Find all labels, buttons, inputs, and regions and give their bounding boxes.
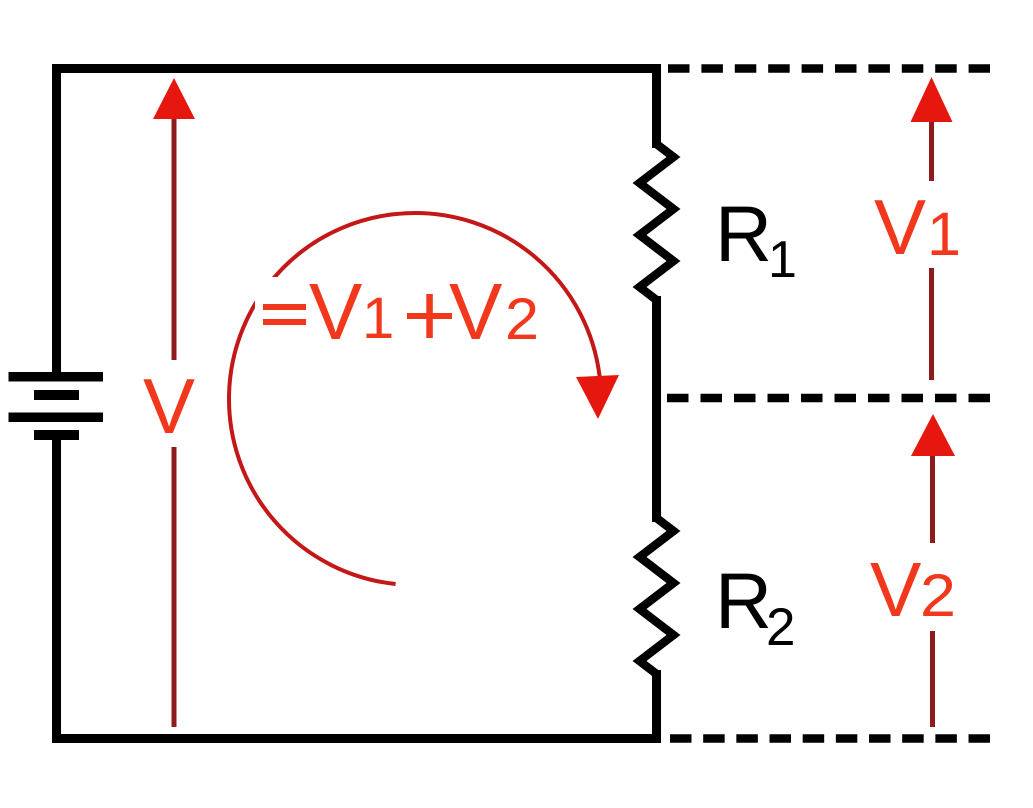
resistor R1 (zigzag) [640,144,674,300]
arrow V2 shaft [930,455,935,727]
dashed node line bottom (node at bottom of R2) [670,734,990,743]
arrow V1 head [911,77,953,122]
loop equation text =V1+V2 [263,267,539,356]
wire right upper (top wire to R1) [652,64,661,148]
wire left lower (battery to bottom wire) [52,440,61,743]
dashed node line top (node at top of R1) [668,64,990,73]
arrow V head [153,78,195,119]
svg-text:V: V [870,547,922,633]
svg-text:2: 2 [505,287,539,352]
resistor R2 (zigzag) [640,518,674,674]
loop arrow head [576,375,619,419]
white backing box for V1 label [866,181,961,268]
arrow V1 shaft [929,121,934,380]
loop arrow arc (KVL loop direction) [229,213,600,584]
label V2 [870,547,956,633]
label V1 [874,183,961,271]
wire right middle (R1 to R2, node between resistors) [652,296,661,522]
dashed node line middle (node between R1 and R2) [667,394,990,403]
battery V (voltage source, two cells) [9,372,104,440]
label R1 [715,189,797,289]
wire bottom [52,734,661,743]
svg-text:1: 1 [362,286,394,351]
arrow V2 head [911,414,955,456]
svg-text:R: R [715,556,772,645]
arrow V shaft (battery voltage arrow) [172,119,177,727]
wire right lower (R2 to bottom wire) [652,670,661,743]
label R2 [715,556,795,657]
white backing box for V2 label [862,543,961,631]
svg-text:2: 2 [920,562,956,629]
wire top (battery + to R1 top) [52,64,661,73]
wire left upper (top wire to battery) [52,64,61,372]
svg-text:1: 1 [768,231,797,289]
svg-text:V: V [874,183,926,271]
svg-text:V: V [449,267,503,356]
svg-text:R: R [715,189,772,278]
white backing box for V label [136,360,204,447]
svg-text:V: V [143,362,195,450]
white backing box for loop equation text [255,277,549,345]
svg-text:V: V [309,267,363,356]
svg-text:2: 2 [766,598,795,657]
svg-text:1: 1 [927,200,961,268]
